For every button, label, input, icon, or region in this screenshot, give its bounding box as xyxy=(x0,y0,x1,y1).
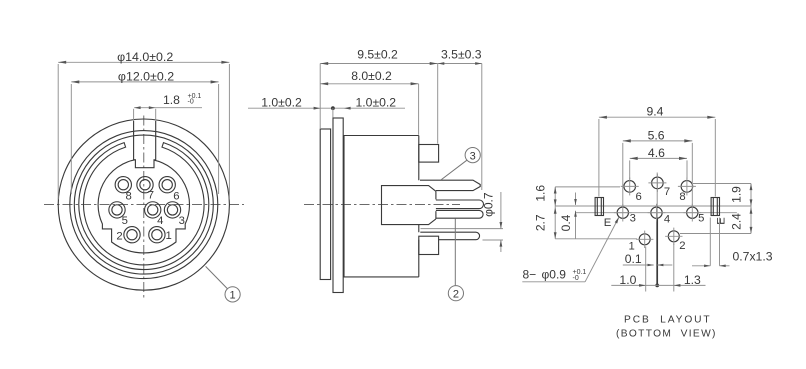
svg-text:1.6: 1.6 xyxy=(533,185,547,202)
svg-text:2: 2 xyxy=(679,240,685,252)
svg-text:5.6: 5.6 xyxy=(648,129,665,143)
svg-text:1.0±0.2: 1.0±0.2 xyxy=(356,95,397,109)
pcb earth label E right xyxy=(716,217,728,225)
svg-text:-0: -0 xyxy=(573,275,579,282)
callout 3 balloon xyxy=(441,148,480,180)
front view horizontal centerline xyxy=(44,204,244,206)
svg-text:4.6: 4.6 xyxy=(648,146,665,160)
side view insulator boss xyxy=(382,186,436,225)
svg-text:1: 1 xyxy=(629,241,635,253)
svg-text:9.5±0.2: 9.5±0.2 xyxy=(357,48,398,62)
front view pin 8 xyxy=(115,177,131,193)
svg-text:1.9: 1.9 xyxy=(730,186,744,203)
svg-text:(BOTTOM VIEW): (BOTTOM VIEW) xyxy=(616,328,717,339)
svg-text:7: 7 xyxy=(664,186,670,198)
pcb hole 4 label xyxy=(664,213,670,225)
pcb hole 3 label xyxy=(630,213,636,225)
svg-text:3: 3 xyxy=(470,150,476,162)
pcb horizontal centerline (slots) xyxy=(555,205,751,207)
svg-text:6: 6 xyxy=(173,190,179,202)
dimension 1.0 bottom xyxy=(611,247,657,292)
svg-text:8: 8 xyxy=(125,190,131,202)
front view pin 6 label xyxy=(173,190,179,202)
dimension 9.5 xyxy=(320,48,438,144)
dimension 0.4 left xyxy=(559,193,577,240)
dimension &#966;0.7 pin xyxy=(421,192,504,252)
pcb hole 7 xyxy=(648,174,666,192)
front view ring circle (&#966;12 outer) xyxy=(70,131,218,279)
front view pin 1 label xyxy=(166,230,172,242)
callout 2 balloon xyxy=(448,218,463,300)
front view pin 7 xyxy=(137,177,153,193)
dimension 1.9 right xyxy=(693,184,752,207)
pcb hole 1 xyxy=(636,231,653,248)
pcb hole 6 xyxy=(621,177,639,195)
svg-text:8.0±0.2: 8.0±0.2 xyxy=(351,69,392,83)
pcb title xyxy=(616,314,717,339)
svg-text:2: 2 xyxy=(453,289,459,301)
front view retention slot (C-shaped groove) xyxy=(79,143,209,270)
side view front ring plate xyxy=(320,129,330,280)
front view outer circle (shell &#966;14) xyxy=(58,119,229,290)
side view bottom mounting tab xyxy=(419,236,439,254)
front view shield outline with notches xyxy=(98,160,189,253)
dimension 1.0 ring xyxy=(248,95,344,117)
svg-text:4: 4 xyxy=(664,213,670,225)
dimension 5.6 xyxy=(623,129,693,206)
svg-text:0.7x1.3: 0.7x1.3 xyxy=(733,249,773,263)
side view pin item2 (bottom) xyxy=(420,232,479,240)
svg-text:1.0: 1.0 xyxy=(619,273,636,287)
svg-text:8: 8 xyxy=(679,191,685,203)
svg-text:7: 7 xyxy=(148,190,154,202)
svg-text:2.7: 2.7 xyxy=(533,214,547,231)
dimension 0.7x1.3 slot xyxy=(692,218,773,268)
svg-text:1.8: 1.8 xyxy=(163,93,180,107)
svg-text:2.4: 2.4 xyxy=(730,213,744,230)
pcb hole 5 xyxy=(683,204,701,222)
pcb earth label E left xyxy=(604,217,612,229)
svg-text:9.4: 9.4 xyxy=(647,105,664,119)
dimension 1.8 keyway xyxy=(134,93,202,109)
pcb hole 3 xyxy=(614,204,632,222)
svg-text:1.0±0.2: 1.0±0.2 xyxy=(261,95,302,109)
front view pin 8 label xyxy=(125,190,131,202)
pcb hole 5 label xyxy=(698,213,704,225)
front view pin 6 xyxy=(159,177,175,193)
pcb hole 4 xyxy=(648,204,666,222)
svg-text:2: 2 xyxy=(116,230,122,242)
side view middle pins (fork) xyxy=(436,200,484,218)
pcb hole 8 label xyxy=(679,191,685,203)
front view vertical centerline xyxy=(143,116,145,298)
pcb earth slot right xyxy=(711,198,719,216)
dimension 3.5 xyxy=(438,48,482,191)
svg-text:6: 6 xyxy=(636,191,642,203)
svg-text:5: 5 xyxy=(698,213,704,225)
pcb hole 6 label xyxy=(636,191,642,203)
pcb holes row line xyxy=(575,212,737,214)
svg-text:4: 4 xyxy=(157,215,163,227)
side view body xyxy=(344,136,419,277)
dimension &#966;14.0 front xyxy=(58,50,229,200)
svg-text:3.5±0.3: 3.5±0.3 xyxy=(441,48,482,62)
dimension 8-&#966;0.9 holes xyxy=(522,217,619,282)
dimension 2.7 left xyxy=(533,206,637,239)
pcb hole 2 label xyxy=(679,240,685,252)
side view flange plate xyxy=(333,118,343,293)
dimension 2.4 right xyxy=(680,206,752,234)
front view pin 7 label xyxy=(148,190,154,202)
svg-text:0.4: 0.4 xyxy=(559,214,573,231)
callout 1 balloon xyxy=(206,266,241,302)
front view pin 4 xyxy=(145,202,161,218)
side view horizontal centerline xyxy=(304,203,460,205)
svg-text:1.3: 1.3 xyxy=(684,273,701,287)
dimension 4.6 xyxy=(630,146,687,179)
dimension 8.0 xyxy=(320,69,418,135)
dimension &#966;12.0 front xyxy=(71,70,218,194)
svg-text:φ0.7: φ0.7 xyxy=(482,192,496,217)
svg-text:E: E xyxy=(716,217,728,225)
svg-text:1: 1 xyxy=(166,230,172,242)
side view top mounting tab xyxy=(419,145,439,163)
pcb hole 1 label xyxy=(629,241,635,253)
svg-text:3: 3 xyxy=(179,215,185,227)
front view keyway extension lines xyxy=(134,109,156,121)
svg-text:8−: 8− xyxy=(523,268,537,282)
svg-text:PCB LAYOUT: PCB LAYOUT xyxy=(624,314,712,325)
front view pin 1 xyxy=(149,227,165,243)
front view pin 2 label xyxy=(116,230,122,242)
front view pin 2 xyxy=(124,227,140,243)
dimension 1.6 left xyxy=(533,185,620,206)
front view ring circle (&#966;12 inner) xyxy=(74,135,213,274)
svg-text:E: E xyxy=(604,217,612,229)
svg-text:0.1: 0.1 xyxy=(625,252,642,266)
svg-text:1: 1 xyxy=(230,290,236,302)
dimension 1.0 flange xyxy=(344,95,405,109)
dimension 9.4 xyxy=(599,105,715,197)
pcb hole 2 xyxy=(665,228,682,245)
svg-text:-0: -0 xyxy=(188,99,194,106)
pcb vertical centerline xyxy=(655,173,659,288)
svg-text:5: 5 xyxy=(122,215,128,227)
front view pin 5 xyxy=(109,202,125,218)
pcb earth slot left xyxy=(595,198,603,216)
svg-text:φ14.0±0.2: φ14.0±0.2 xyxy=(117,50,173,64)
front view pin 3 xyxy=(164,202,180,218)
svg-text:φ0.9: φ0.9 xyxy=(542,268,567,282)
dimension 0.1 xyxy=(623,252,673,266)
front view pin 5 label xyxy=(122,215,128,227)
front view pin 3 label xyxy=(179,215,185,227)
front view keyway slot xyxy=(134,121,156,168)
dimension 1.3 bottom xyxy=(657,244,705,292)
side view pin item3 (top) xyxy=(420,180,480,190)
front view pin 4 label xyxy=(157,215,163,227)
svg-text:φ12.0±0.2: φ12.0±0.2 xyxy=(118,70,174,84)
svg-text:3: 3 xyxy=(630,213,636,225)
pcb hole 7 label xyxy=(664,186,670,198)
pcb hole 8 xyxy=(678,177,696,195)
